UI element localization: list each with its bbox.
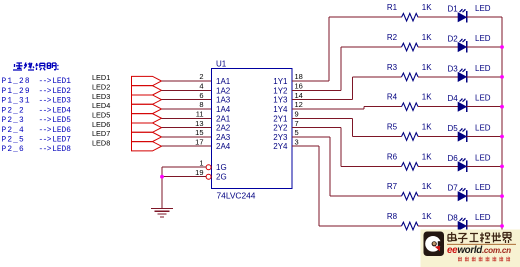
watermark text dian zi gong cheng shi jie: [448, 232, 512, 243]
port LED2: [92, 83, 162, 95]
svg-text:LED: LED: [475, 213, 491, 222]
port LED6: [92, 120, 162, 132]
svg-text:2Y4: 2Y4: [273, 142, 288, 151]
svg-text:R3: R3: [387, 63, 398, 72]
svg-text:LED3: LED3: [92, 92, 110, 101]
wire LED to bus: [467, 46, 503, 48]
note line 7: P pin to LED7: [2, 137, 72, 145]
svg-text:2: 2: [199, 72, 203, 81]
svg-text:1Y4: 1Y4: [273, 105, 288, 114]
note line 2: P pin to LED2: [2, 88, 72, 96]
svg-text:1K: 1K: [422, 152, 432, 161]
svg-text:LED: LED: [475, 4, 491, 13]
svg-text:LED4: LED4: [92, 101, 110, 110]
svg-text:18: 18: [295, 72, 303, 81]
junction row 2 on bus: [500, 45, 504, 49]
wire LED to bus: [467, 106, 503, 108]
svg-text:LED8: LED8: [92, 138, 110, 147]
svg-text:R4: R4: [387, 93, 398, 102]
svg-text:1Y1: 1Y1: [273, 77, 288, 86]
wire pin 1 to ground rail: [162, 166, 206, 168]
svg-text:2G: 2G: [216, 173, 227, 182]
svg-text:P2_5: P2_5: [2, 137, 25, 145]
svg-text:-->: -->: [39, 127, 52, 135]
port LED1: [92, 73, 162, 85]
junction row 7 on bus: [500, 194, 504, 198]
wire resistor to LED: [418, 225, 458, 227]
port LED4: [92, 101, 162, 113]
wire port LED5 to pin 11: [162, 117, 212, 119]
LED D3: [448, 64, 491, 83]
svg-text:-->: -->: [39, 107, 52, 115]
svg-text:1G: 1G: [216, 163, 227, 172]
svg-text:2Y3: 2Y3: [273, 133, 288, 142]
wire pin 9 to row 5: [292, 118, 402, 136]
svg-text:16: 16: [295, 82, 303, 91]
LED D2: [448, 34, 491, 53]
wire LED to bus: [467, 16, 503, 18]
svg-text:LED: LED: [475, 64, 491, 73]
svg-text:1A1: 1A1: [216, 77, 231, 86]
wire resistor to LED: [418, 46, 458, 48]
svg-text:5: 5: [295, 128, 299, 137]
svg-text:P1_31: P1_31: [2, 98, 31, 106]
junction row 6 on bus: [500, 164, 504, 168]
svg-text:1K: 1K: [422, 93, 432, 102]
wire port LED7 to pin 15: [162, 136, 212, 138]
wire port LED3 to pin 6: [162, 99, 212, 101]
wire port LED4 to pin 8: [162, 108, 212, 110]
svg-text:R5: R5: [387, 123, 398, 132]
svg-text:14: 14: [295, 91, 303, 100]
svg-text:R6: R6: [387, 152, 398, 161]
wire pin 19 to ground rail: [162, 176, 206, 178]
junction row 3 on bus: [500, 75, 504, 79]
svg-text:1K: 1K: [422, 212, 432, 221]
note line 5: P pin to LED5: [2, 117, 72, 125]
svg-text:LED: LED: [475, 94, 491, 103]
wire resistor to LED: [418, 76, 458, 78]
svg-text:1K: 1K: [422, 182, 432, 191]
svg-text:LED8: LED8: [52, 146, 71, 154]
svg-text:D4: D4: [448, 94, 459, 103]
svg-text:LED1: LED1: [52, 78, 71, 86]
wire resistor to LED: [418, 106, 458, 108]
svg-text:1A4: 1A4: [216, 105, 231, 114]
svg-text:LED6: LED6: [52, 127, 71, 135]
ground: [151, 209, 173, 217]
wire LED to bus: [467, 195, 503, 197]
wire LED to bus: [467, 225, 503, 227]
svg-text:D5: D5: [448, 124, 459, 133]
svg-text:2Y1: 2Y1: [273, 114, 288, 123]
svg-text:-->: -->: [39, 88, 52, 96]
svg-text:1: 1: [199, 158, 203, 167]
svg-text:3: 3: [295, 137, 299, 146]
wire pin 18 to row 1: [292, 17, 402, 81]
svg-text:LED: LED: [475, 34, 491, 43]
svg-text:-->: -->: [39, 137, 52, 145]
svg-text:D6: D6: [448, 154, 459, 163]
svg-text:2A2: 2A2: [216, 124, 231, 133]
svg-text:U1: U1: [216, 60, 227, 69]
svg-text:2A1: 2A1: [216, 114, 231, 123]
resistor R4 1K: [387, 93, 432, 111]
svg-text:1K: 1K: [422, 3, 432, 12]
svg-text:R1: R1: [387, 3, 398, 12]
svg-text:D1: D1: [448, 5, 459, 14]
note line 1: P pin to LED1: [2, 78, 72, 86]
resistor R1 1K: [387, 3, 432, 21]
svg-text:LED6: LED6: [92, 120, 110, 129]
svg-text:13: 13: [195, 119, 203, 128]
junction row 5 on bus: [500, 135, 504, 139]
svg-text:D2: D2: [448, 35, 459, 44]
svg-text:15: 15: [195, 128, 203, 137]
svg-text:1Y2: 1Y2: [273, 86, 288, 95]
resistor R6 1K: [387, 152, 432, 170]
note line 6: P pin to LED6: [2, 127, 72, 135]
wire pin 5 to row 7: [292, 137, 402, 196]
svg-text:R2: R2: [387, 33, 398, 42]
svg-text:74LVC244: 74LVC244: [217, 191, 256, 201]
LED D1: [448, 4, 491, 23]
svg-text:P2_3: P2_3: [2, 117, 25, 125]
svg-text:eeworld.com.cn: eeworld.com.cn: [447, 245, 511, 256]
resistor R3 1K: [387, 63, 432, 81]
note line 4: P pin to LED4: [2, 107, 72, 115]
svg-text:D7: D7: [448, 184, 459, 193]
wire ground rail vertical: [161, 167, 163, 208]
svg-text:LED7: LED7: [52, 137, 71, 145]
svg-text:LED4: LED4: [52, 107, 71, 115]
svg-text:19: 19: [195, 168, 203, 177]
wire resistor to LED: [418, 136, 458, 138]
svg-text:9: 9: [295, 109, 299, 118]
svg-text:LED: LED: [475, 124, 491, 133]
svg-text:1A2: 1A2: [216, 86, 231, 95]
wire resistor to LED: [418, 195, 458, 197]
resistor R5 1K: [387, 123, 432, 141]
LED D6: [448, 153, 491, 172]
svg-text:P1_28: P1_28: [2, 78, 31, 86]
wire pin 7 to row 6: [292, 128, 402, 167]
wire resistor to LED: [418, 16, 458, 18]
wire pin 16 to row 2: [292, 47, 402, 90]
LED D8: [448, 213, 491, 232]
wire pin 12 to row 4: [292, 107, 402, 109]
svg-text:D3: D3: [448, 64, 459, 73]
svg-text:2A4: 2A4: [216, 142, 231, 151]
op IC U1 74LVC244 body: [212, 60, 293, 201]
watermark eeworld logo background: [421, 230, 520, 267]
LED D7: [448, 183, 491, 202]
svg-text:1Y3: 1Y3: [273, 96, 288, 105]
svg-text:LED3: LED3: [52, 98, 71, 106]
svg-text:1K: 1K: [422, 123, 432, 132]
watermark underline: [447, 243, 516, 245]
inversion bubble pin 19: [206, 174, 211, 179]
junction at pin19 rail: [160, 175, 164, 179]
wire port LED6 to pin 13: [162, 127, 212, 129]
svg-text:LED: LED: [475, 153, 491, 162]
svg-text:17: 17: [195, 137, 203, 146]
svg-text:6: 6: [199, 91, 203, 100]
svg-text:7: 7: [295, 119, 299, 128]
svg-text:P2_4: P2_4: [2, 127, 25, 135]
port LED8: [92, 138, 162, 150]
note title: lian xian shuo ming (connection notes): [13, 63, 59, 71]
svg-text:11: 11: [196, 109, 204, 118]
port LED3: [92, 92, 162, 104]
svg-text:LED: LED: [475, 183, 491, 192]
svg-text:1A3: 1A3: [216, 96, 231, 105]
wire port LED1 to pin 2: [162, 80, 212, 82]
svg-text:2Y2: 2Y2: [273, 124, 288, 133]
svg-text:R7: R7: [387, 182, 398, 191]
wire resistor to LED: [418, 165, 458, 167]
wire LED to bus: [467, 165, 503, 167]
svg-text:P2_2: P2_2: [2, 107, 25, 115]
svg-text:LED5: LED5: [92, 110, 110, 119]
watermark logo mark (dark square with C): [424, 232, 445, 257]
svg-text:P1_29: P1_29: [2, 88, 31, 96]
wire LED to bus: [467, 136, 503, 138]
resistor R7 1K: [387, 182, 432, 200]
note line 8: P pin to LED8: [2, 146, 72, 154]
svg-text:LED7: LED7: [92, 129, 110, 138]
svg-text:2A3: 2A3: [216, 133, 231, 142]
LED D4: [448, 94, 491, 113]
svg-text:LED2: LED2: [52, 88, 71, 96]
wire port LED8 to pin 17: [162, 145, 212, 147]
svg-text:D8: D8: [448, 214, 459, 223]
svg-text:-->: -->: [39, 98, 52, 106]
inversion bubble pin 1: [206, 165, 211, 170]
wire LED to bus: [467, 76, 503, 78]
port LED7: [92, 129, 162, 141]
junction row 8 on bus: [500, 224, 504, 228]
wire cathode bus vertical: [501, 17, 503, 230]
svg-text:-->: -->: [39, 78, 52, 86]
resistor R8 1K: [387, 212, 432, 230]
svg-text:4: 4: [199, 82, 203, 91]
svg-text:1K: 1K: [422, 63, 432, 72]
svg-text:-->: -->: [39, 146, 52, 154]
svg-text:P2_6: P2_6: [2, 146, 25, 154]
note line 3: P pin to LED3: [2, 98, 72, 106]
wire pin 3 to row 8: [292, 146, 402, 226]
resistor R2 1K: [387, 33, 432, 51]
port LED5: [92, 110, 162, 122]
wire pin 14 to row 3: [292, 77, 402, 100]
svg-text:-->: -->: [39, 117, 52, 125]
watermark small red slogan: [458, 257, 510, 262]
svg-text:LED5: LED5: [52, 117, 71, 125]
svg-text:LED1: LED1: [92, 73, 110, 82]
wire port LED2 to pin 4: [162, 89, 212, 91]
svg-text:LED2: LED2: [92, 83, 110, 92]
svg-text:R8: R8: [387, 212, 398, 221]
LED D5: [448, 124, 491, 143]
svg-text:1K: 1K: [422, 33, 432, 42]
svg-text:12: 12: [295, 100, 303, 109]
junction row 4 on bus: [500, 105, 504, 109]
svg-text:8: 8: [199, 100, 203, 109]
